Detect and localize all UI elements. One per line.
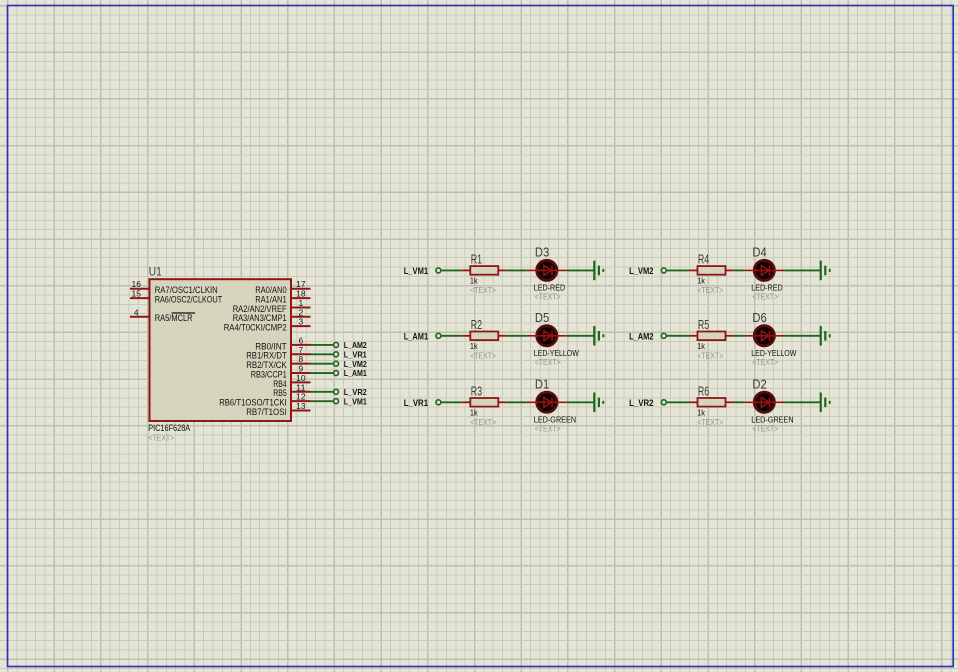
svg-text:R5: R5 [698,318,709,332]
svg-text:R6: R6 [698,384,709,398]
wire L_VR2 to R6 [667,401,689,403]
resistor R3 [462,398,507,407]
wire R5 to D6 [734,335,744,337]
wire pin to terminal L_VM2 [311,363,333,365]
terminal node L_VM2 [661,268,666,273]
wire D5 to ground [567,335,594,337]
wire D6 to ground [784,335,820,337]
resistor R2 [462,332,507,341]
svg-text:RA6/OSC2/CLKOUT: RA6/OSC2/CLKOUT [155,294,223,304]
wire pin to terminal L_AM2 [311,344,333,346]
svg-text:1: 1 [299,299,304,308]
pin 9 (RB3/CCP1) stub [291,372,311,374]
resistor R5 [689,332,734,341]
wire L_AM2 to R5 [667,335,689,337]
pin 12 (RB6/T1OSO/T1CKI) stub [291,400,311,402]
svg-text:L_VR2: L_VR2 [344,388,367,397]
svg-text:15: 15 [132,290,142,299]
svg-text:9: 9 [299,365,304,374]
svg-text:<TEXT>: <TEXT> [535,292,561,302]
svg-text:L_AM1: L_AM1 [344,369,367,378]
terminal node L_VM1 [334,399,339,404]
svg-text:L_AM1: L_AM1 [404,332,428,342]
svg-text:<TEXT>: <TEXT> [752,292,778,302]
svg-text:2: 2 [299,308,304,317]
svg-text:U1: U1 [149,266,162,279]
svg-text:3: 3 [299,318,304,327]
pin 16 (RA7/OSC1/CLKIN) stub [130,288,150,290]
pin 10 (RB4) stub [291,381,311,383]
wire pin to terminal L_AM1 [311,372,333,374]
ground symbol [821,326,830,346]
pin 7 (RB1/RX/DT) stub [291,353,311,355]
wire pin to terminal L_VR1 [311,353,333,355]
pin 1 (RA2/AN2/VREF) stub [291,306,311,308]
wire R4 to D4 [734,269,744,271]
svg-text:PIC16F628A: PIC16F628A [148,423,190,433]
svg-text:L_VR1: L_VR1 [404,398,428,408]
wire R6 to D2 [734,401,744,403]
wire D1 to ground [567,401,594,403]
LED D3 [527,260,567,280]
pin 11 (RB5) stub [291,391,311,393]
ground symbol [821,261,830,281]
wire R1 to D3 [507,269,527,271]
pin 13 (RB7/T1OSI) stub [291,410,311,412]
terminal node L_AM1 [334,371,339,376]
svg-text:10: 10 [296,374,306,383]
terminal node L_AM1 [436,333,441,338]
svg-text:L_VM1: L_VM1 [344,397,367,406]
wire D3 to ground [567,269,594,271]
LED D5 [527,326,567,346]
svg-text:RB7/T1OSI: RB7/T1OSI [246,407,287,417]
svg-text:R2: R2 [471,318,482,332]
svg-text:17: 17 [296,280,306,289]
svg-text:6: 6 [299,336,304,345]
pin 15 (RA6/OSC2/CLKOUT) stub [130,297,150,299]
IC U1 PIC16F628A body [150,279,292,421]
svg-text:<TEXT>: <TEXT> [470,285,496,295]
svg-text:11: 11 [296,383,306,392]
svg-text:D5: D5 [535,311,549,325]
svg-text:D1: D1 [535,377,549,391]
svg-text:RA4/T0CKI/CMP2: RA4/T0CKI/CMP2 [224,323,287,333]
svg-text:12: 12 [296,393,306,402]
ground symbol [594,261,603,281]
ground symbol [594,393,603,413]
svg-text:<TEXT>: <TEXT> [752,357,778,367]
svg-text:<TEXT>: <TEXT> [470,417,496,427]
svg-text:L_VM1: L_VM1 [404,266,428,276]
svg-text:<TEXT>: <TEXT> [697,417,723,427]
LED D4 [744,260,784,280]
svg-text:<TEXT>: <TEXT> [148,432,174,442]
wire pin to terminal L_VM1 [311,400,333,402]
svg-text:D4: D4 [752,245,766,259]
terminal node L_VR1 [334,352,339,357]
svg-text:L_VR2: L_VR2 [629,398,653,408]
pin 17 (RA0/AN0) stub [291,288,311,290]
svg-text:L_AM2: L_AM2 [344,341,367,350]
pin 18 (RA1/AN1) stub [291,297,311,299]
pin 3 (RA4/T0CKI/CMP2) stub [291,325,311,327]
wire L_AM1 to R2 [442,335,462,337]
ground symbol [594,326,603,346]
svg-text:4: 4 [134,308,139,317]
wire L_VM2 to R4 [667,269,689,271]
svg-text:<TEXT>: <TEXT> [470,350,496,360]
wire L_VR1 to R3 [442,401,462,403]
pin 2 (RA3/AN3/CMP1) stub [291,316,311,318]
pin 4 (RA5/MCLR) stub [130,316,150,318]
svg-text:<TEXT>: <TEXT> [697,350,723,360]
svg-text:L_VM2: L_VM2 [344,360,367,369]
wire R3 to D1 [507,401,527,403]
svg-text:13: 13 [296,402,306,411]
svg-text:7: 7 [299,346,304,355]
LED D6 [744,326,784,346]
LED D2 [744,392,784,412]
resistor R1 [462,266,507,275]
pin 8 (RB2/TX/CK) stub [291,363,311,365]
svg-text:RA5/MCLR: RA5/MCLR [155,313,193,323]
svg-text:<TEXT>: <TEXT> [697,285,723,295]
svg-text:18: 18 [296,290,306,299]
svg-text:8: 8 [299,355,304,364]
svg-text:L_VR1: L_VR1 [344,350,367,359]
terminal node L_AM2 [661,333,666,338]
wire D2 to ground [784,401,820,403]
terminal node L_VR1 [436,400,441,405]
resistor R6 [689,398,734,407]
terminal node L_VR2 [334,389,339,394]
terminal node L_AM2 [334,342,339,347]
svg-text:L_VM2: L_VM2 [629,266,653,276]
pin 6 (RB0/INT) stub [291,344,311,346]
svg-text:16: 16 [132,280,142,289]
wire D4 to ground [784,269,820,271]
svg-text:L_AM2: L_AM2 [629,332,653,342]
terminal node L_VM1 [436,268,441,273]
svg-text:D6: D6 [752,311,766,325]
terminal node L_VR2 [661,400,666,405]
LED D1 [527,392,567,412]
resistor R4 [689,266,734,275]
svg-text:R3: R3 [471,384,482,398]
svg-text:R1: R1 [471,253,482,267]
svg-text:<TEXT>: <TEXT> [535,357,561,367]
svg-text:D2: D2 [752,377,766,391]
svg-text:D3: D3 [535,245,549,259]
svg-text:R4: R4 [698,253,709,267]
wire pin to terminal L_VR2 [311,391,333,393]
wire L_VM1 to R1 [442,269,462,271]
wire R2 to D5 [507,335,527,337]
ground symbol [821,393,830,413]
terminal node L_VM2 [334,361,339,366]
svg-text:<TEXT>: <TEXT> [752,423,778,433]
svg-text:<TEXT>: <TEXT> [535,423,561,433]
